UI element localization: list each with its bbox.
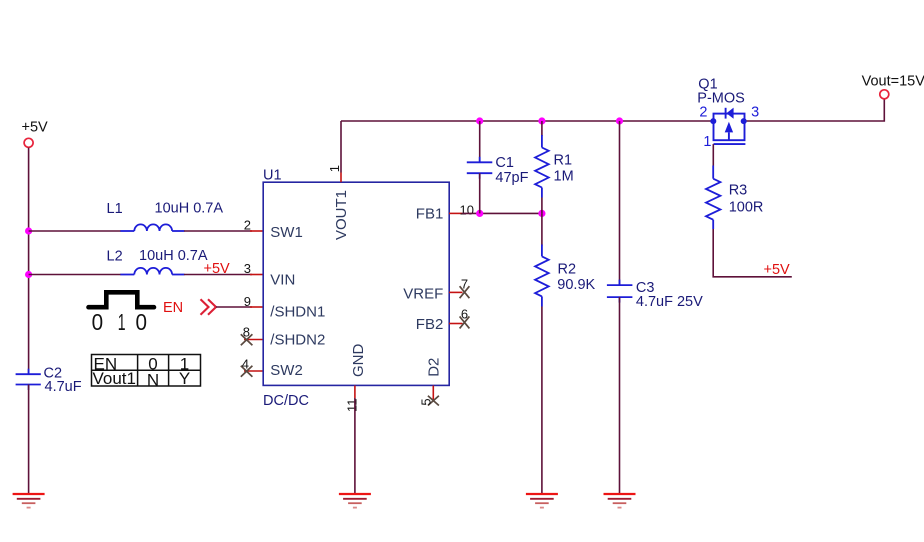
capacitor C2 — [16, 366, 82, 396]
svg-text:C1: C1 — [495, 155, 514, 171]
svg-text:SW2: SW2 — [270, 362, 303, 379]
svg-text:4.7uF 25V: 4.7uF 25V — [636, 294, 703, 310]
no-connect X pin 8 — [241, 334, 253, 345]
svg-text:D2: D2 — [426, 358, 443, 377]
wire rail to C1 top — [479, 121, 481, 162]
svg-text:9: 9 — [244, 294, 251, 309]
inductor L1 10uH 0.7A — [107, 201, 224, 232]
svg-text:10uH 0.7A: 10uH 0.7A — [155, 201, 224, 217]
svg-text:+5V: +5V — [204, 261, 231, 277]
capacitor C1 47pF — [467, 155, 529, 186]
svg-text:5: 5 — [419, 398, 434, 405]
pin 4 stub SW2 — [244, 370, 263, 372]
svg-text:1: 1 — [703, 134, 711, 150]
svg-text:FB2: FB2 — [416, 316, 444, 333]
svg-text:SW1: SW1 — [270, 224, 303, 241]
wire rail to R1 top — [541, 121, 543, 136]
power terminal Vout=15V — [862, 73, 924, 98]
node junction dot (rail / L1) — [25, 227, 32, 234]
svg-text:11: 11 — [345, 399, 360, 413]
svg-text:1: 1 — [327, 165, 342, 172]
power terminal +5V (left input) — [22, 120, 49, 148]
svg-text:DC/DC: DC/DC — [263, 393, 309, 409]
pin 1 stub VOUT1 — [340, 173, 342, 183]
svg-text:3: 3 — [751, 105, 759, 121]
wire Q1 gate down — [712, 144, 714, 165]
wire L2 to pin VIN — [184, 274, 252, 276]
ground (IC GND) — [339, 494, 371, 508]
svg-text:P-MOS: P-MOS — [697, 91, 745, 107]
pin 8 stub /SHDN2 — [244, 339, 263, 341]
svg-text:L1: L1 — [107, 201, 123, 217]
node junction dot (rail / L2) — [25, 271, 32, 278]
port chevron EN >> — [201, 299, 217, 315]
inductor L2 10uH 0.7A — [107, 248, 208, 275]
ground (R2) — [526, 494, 558, 508]
wire C2 bottom to ground — [28, 385, 30, 495]
node junction dot (rail / R1) — [538, 117, 545, 124]
svg-text:+5V: +5V — [22, 120, 49, 136]
pin 5 stub D2 — [432, 386, 434, 401]
pin 6 stub FB2 — [449, 323, 463, 325]
svg-text:4.7uF: 4.7uF — [45, 379, 82, 395]
svg-text:+5V: +5V — [764, 262, 791, 278]
svg-text:0: 0 — [92, 309, 104, 335]
pin 11 stub GND — [354, 386, 356, 399]
pin 3 stub VIN — [250, 274, 263, 276]
svg-text:GND: GND — [350, 344, 367, 378]
wire L1 to pin SW1 — [184, 230, 252, 232]
wire rail to L2 — [29, 274, 121, 276]
no-connect X pin 5 — [428, 396, 439, 406]
wire EN to pin /SHDN1 — [216, 306, 252, 308]
wire left +5V rail vertical — [28, 148, 30, 374]
svg-text:2: 2 — [699, 105, 707, 121]
svg-text:1M: 1M — [554, 169, 574, 185]
svg-text:6: 6 — [461, 307, 468, 322]
capacitor C3 4.7uF 25V — [607, 280, 703, 310]
resistor R1 1M — [535, 135, 574, 198]
svg-text:0: 0 — [136, 309, 148, 335]
wire FB1 to divider — [462, 212, 542, 214]
ground (C3) — [604, 494, 636, 508]
svg-text:FB1: FB1 — [416, 205, 444, 222]
svg-text:Vout=15V: Vout=15V — [862, 73, 924, 89]
node junction dot (rail / C3) — [616, 117, 623, 124]
wire C1 bottom to FB1 node — [479, 173, 481, 213]
no-connect X pin 6 — [460, 316, 470, 328]
svg-text:R1: R1 — [554, 153, 573, 169]
no-connect X pin 4 — [241, 366, 253, 377]
svg-text:L2: L2 — [107, 248, 123, 264]
svg-text:47pF: 47pF — [495, 170, 528, 186]
node junction dot (rail / C1) — [476, 117, 483, 124]
svg-text:8: 8 — [243, 324, 250, 339]
wire R1 bottom to FB1 node — [541, 198, 543, 214]
svg-text:Y: Y — [179, 369, 190, 388]
pin 2 stub SW1 — [250, 230, 263, 232]
svg-text:7: 7 — [461, 276, 468, 291]
svg-text:4: 4 — [242, 356, 249, 371]
pulse levels 0 1 0 — [92, 309, 147, 335]
wire C3 bottom to ground — [619, 297, 621, 494]
svg-text:U1: U1 — [263, 168, 282, 184]
svg-text:VREF: VREF — [403, 285, 443, 302]
pin 7 stub VREF — [449, 291, 463, 293]
svg-text:2: 2 — [244, 218, 251, 233]
svg-text:3: 3 — [244, 261, 251, 276]
svg-text:R2: R2 — [558, 262, 577, 278]
svg-text:10uH 0.7A: 10uH 0.7A — [139, 248, 208, 264]
wire top rail VOUT1 net — [341, 99, 884, 121]
svg-text:1: 1 — [118, 309, 126, 335]
wire R3 bottom to +5V port — [713, 229, 792, 277]
svg-text:EN: EN — [163, 300, 183, 316]
wire R2 bottom to ground — [541, 307, 543, 495]
svg-text:R3: R3 — [729, 183, 748, 199]
svg-text:100R: 100R — [729, 200, 764, 216]
transistor Q1 P-MOS — [697, 76, 759, 150]
svg-text:90.9K: 90.9K — [557, 277, 595, 293]
resistor R2 90.9K — [535, 245, 595, 307]
node junction dot (FB1 / R1 / R2) — [538, 210, 545, 217]
svg-text:/SHDN2: /SHDN2 — [270, 331, 325, 348]
wire FB1 node to R2 top — [541, 213, 543, 245]
svg-text:/SHDN1: /SHDN1 — [270, 304, 325, 321]
resistor R3 100R — [706, 166, 763, 230]
ground (left rail) — [13, 494, 45, 508]
svg-text:Vout1: Vout1 — [93, 369, 137, 388]
wire VOUT1 to top rail — [340, 121, 342, 173]
IC U1 body — [263, 182, 449, 385]
svg-text:N: N — [147, 371, 159, 390]
pin 10 stub FB1 — [449, 212, 462, 214]
no-connect X pin 7 — [460, 286, 470, 298]
wire GND pin to ground — [354, 398, 356, 494]
truth table EN/Vout1 — [92, 354, 201, 389]
wire rail to L1 — [29, 230, 121, 232]
svg-text:VOUT1: VOUT1 — [333, 190, 350, 240]
EN pulse waveform symbol — [89, 292, 155, 307]
pin 9 stub /SHDN1 — [250, 306, 263, 308]
svg-text:VIN: VIN — [270, 271, 295, 288]
svg-text:10: 10 — [460, 203, 474, 218]
node junction dot (FB1 / C1) — [476, 210, 483, 217]
wire rail to C3 top — [619, 121, 621, 285]
